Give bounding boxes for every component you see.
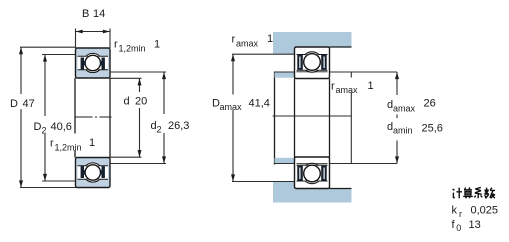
bearing bottom cross-section (right view)	[295, 157, 330, 189]
wire bore silhouette left (broken for r label)	[74, 78, 76, 134]
housing bottom	[273, 189, 352, 203]
svg-text:20: 20	[135, 96, 147, 108]
svg-text:f: f	[452, 219, 456, 231]
svg-text:amax: amax	[336, 85, 359, 95]
dimension d_amax / d_amin	[396, 72, 398, 95]
svg-text:D: D	[34, 121, 42, 133]
计	[453, 189, 455, 198]
svg-text:amax: amax	[236, 39, 259, 49]
shaft left edge	[274, 72, 276, 165]
svg-text:0,025: 0,025	[471, 204, 499, 216]
svg-text:D: D	[10, 98, 18, 110]
shoulder bottom edge / d_amax extension bottom	[275, 163, 295, 165]
svg-text:14: 14	[93, 8, 105, 20]
svg-text:13: 13	[469, 219, 481, 231]
svg-text:r: r	[50, 138, 54, 150]
bearing top cross-section (left view)	[76, 48, 111, 78]
dimension D_amax	[232, 54, 234, 94]
svg-text:k: k	[452, 204, 458, 216]
housing bottom shoulder	[273, 182, 295, 189]
dimension d2: extension lines	[110, 71, 166, 73]
svg-text:r: r	[459, 209, 462, 219]
dimension B: line	[76, 31, 111, 33]
svg-text:r: r	[331, 81, 335, 93]
svg-text:2: 2	[42, 126, 47, 136]
bearing bottom cross-section (left view)	[76, 158, 111, 188]
svg-text:1: 1	[154, 39, 160, 51]
dimension d2: line	[163, 72, 165, 114]
shaft shoulder strip bottom	[275, 158, 295, 164]
dimension D2: extension lines	[42, 54, 76, 56]
dimension D: extension lines	[20, 46, 76, 48]
housing top shoulder	[273, 47, 295, 54]
wire bore silhouette right	[109, 78, 111, 158]
svg-text:B: B	[82, 8, 89, 20]
dimension d: extension lines	[110, 77, 142, 79]
svg-text:26: 26	[424, 98, 436, 110]
svg-text:40,6: 40,6	[51, 121, 72, 133]
dimension B: extension lines	[75, 29, 77, 49]
bearing top cross-section (right view)	[295, 47, 330, 79]
shaft shoulder strip top	[275, 72, 295, 78]
svg-text:26,3: 26,3	[168, 120, 189, 132]
housing shoulder line / D_amax top extension	[232, 53, 295, 55]
svg-text:1,2min: 1,2min	[55, 143, 82, 153]
系	[475, 187, 482, 194]
housing bore line right of bearing	[330, 46, 352, 48]
svg-text:r: r	[114, 39, 118, 51]
shoulder top edge / d_amax extension top	[275, 71, 295, 73]
svg-text:47: 47	[23, 98, 35, 110]
cross reference lines	[273, 115, 352, 117]
svg-text:41,4: 41,4	[249, 98, 270, 110]
centerline axis	[76, 116, 112, 118]
housing top	[273, 32, 352, 47]
svg-text:1: 1	[267, 33, 273, 45]
svg-text:d: d	[124, 96, 130, 108]
算	[464, 187, 472, 189]
dimension D2: line	[44, 55, 46, 117]
svg-text:1: 1	[89, 137, 95, 149]
svg-text:amax: amax	[220, 102, 243, 112]
svg-text:0: 0	[456, 223, 461, 233]
数	[484, 188, 489, 199]
svg-text:2: 2	[157, 125, 162, 135]
svg-text:1,2min: 1,2min	[119, 44, 146, 54]
dimension D: line	[20, 47, 22, 94]
svg-text:25,6: 25,6	[422, 123, 443, 135]
bearing side silhouettes	[294, 79, 296, 158]
svg-text:r: r	[232, 34, 236, 46]
svg-text:amax: amax	[393, 104, 416, 114]
dimension d: line	[139, 78, 141, 92]
label 计算系数 (drawn glyphs)	[453, 187, 495, 198]
svg-text:1: 1	[368, 80, 374, 92]
svg-text:amin: amin	[393, 126, 413, 136]
